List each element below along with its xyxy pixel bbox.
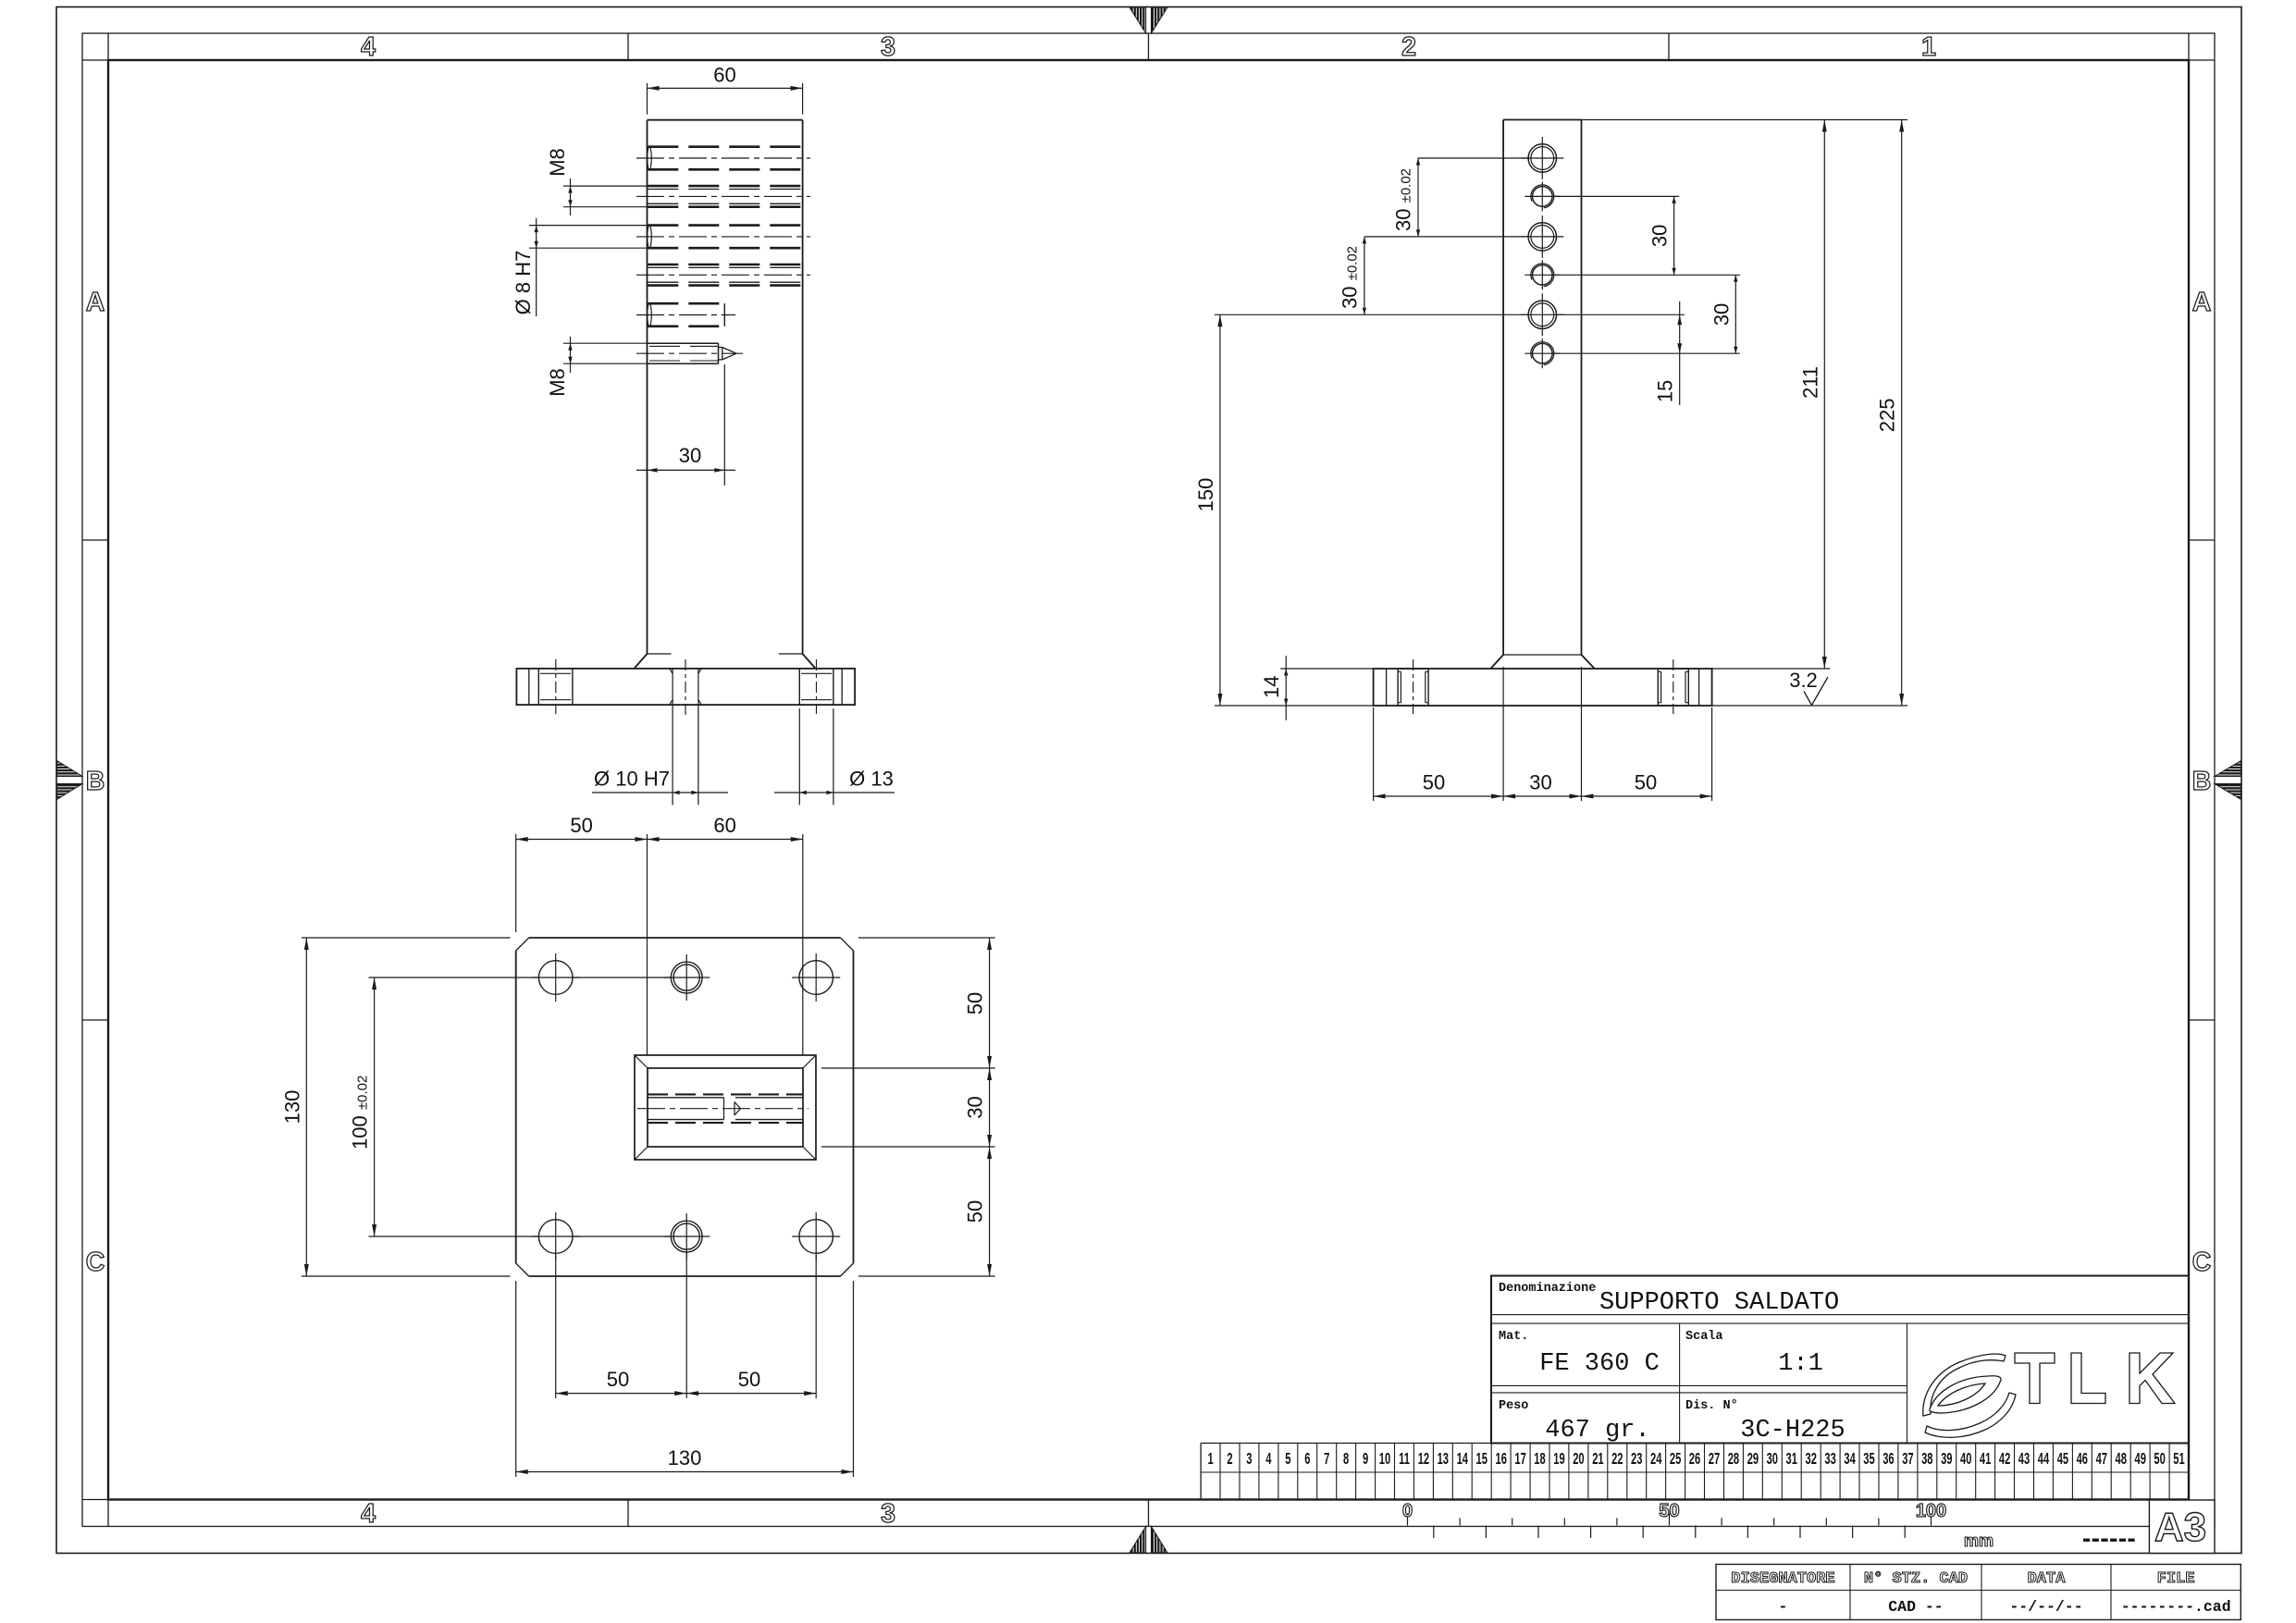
- svg-text:FILE: FILE: [2157, 1570, 2195, 1588]
- svg-text:22: 22: [1611, 1449, 1623, 1468]
- scale bar label 100: [1916, 1501, 1946, 1521]
- svg-text:6: 6: [1304, 1449, 1310, 1468]
- svg-text:4: 4: [361, 32, 376, 62]
- title block row line under Denominazione: [1491, 1315, 2189, 1324]
- centering mark right: [2215, 761, 2241, 800]
- front view: cross hole 1 Ø8 hidden lines: [648, 147, 803, 170]
- svg-text:18: 18: [1534, 1449, 1545, 1468]
- dimension 15 (holes 5-6): [1654, 301, 1682, 405]
- side view: weld flare right: [1582, 655, 1595, 669]
- svg-text:11: 11: [1399, 1449, 1410, 1468]
- plan view: hole Ø13 corner 3: [532, 1212, 580, 1260]
- side view: leader line hole5 left (150 ref): [1215, 314, 1529, 315]
- dimension Ø10H7 (center hole): [592, 708, 833, 805]
- dimension 30 ±0.02 (holes 1-3): [1392, 158, 1421, 237]
- side view: plate hole pocket right centerline: [1673, 659, 1674, 714]
- svg-text:24: 24: [1650, 1449, 1662, 1468]
- svg-text:9: 9: [1363, 1449, 1368, 1468]
- svg-text:3C-H225: 3C-H225: [1740, 1417, 1845, 1445]
- svg-text:50: 50: [1423, 771, 1445, 794]
- scale bar label 0: [1402, 1501, 1413, 1521]
- TLK logo swoosh: [1923, 1354, 2016, 1437]
- svg-text:21: 21: [1592, 1449, 1603, 1468]
- svg-text:15: 15: [1475, 1449, 1487, 1468]
- svg-text:150: 150: [1194, 478, 1217, 512]
- svg-text:Scala: Scala: [1685, 1330, 1723, 1344]
- svg-text:30: 30: [964, 1096, 987, 1118]
- svg-text:-: -: [1779, 1598, 1788, 1616]
- side view: column bottom chamfer line: [1503, 654, 1581, 656]
- svg-text:225: 225: [1876, 399, 1899, 433]
- svg-text:44: 44: [2038, 1449, 2050, 1468]
- dimension 30 (holes 2-4): [1648, 196, 1676, 275]
- svg-text:38: 38: [1921, 1449, 1932, 1468]
- svg-text:3: 3: [881, 1499, 895, 1529]
- front view: setscrew M8 body: [648, 343, 718, 363]
- side view: hole M8 at y4: [1524, 260, 1560, 289]
- plan view: setscrew point in slot: [734, 1102, 741, 1116]
- svg-text:DATA: DATA: [2028, 1570, 2067, 1588]
- title block row line under Mat/Scala: [1491, 1385, 1907, 1393]
- side view: leader line hole4 right: [1551, 274, 1740, 276]
- svg-text:50: 50: [964, 1200, 987, 1223]
- svg-text:13: 13: [1438, 1449, 1449, 1468]
- centering mark left: [57, 761, 83, 800]
- dimension 225 (overall height): [1712, 120, 1907, 707]
- surface finish 3.2 symbol: [1789, 669, 1828, 706]
- plan view: boss corner chamfer diagonals: [635, 1055, 816, 1160]
- svg-text:50: 50: [607, 1368, 629, 1391]
- dimension 211 (column top to plate top): [1582, 120, 1908, 670]
- front view: column bottom chamfer ticks: [648, 653, 803, 655]
- dimension 30 (side bottom middle): [1503, 667, 1581, 801]
- dimension 50 (plan bottom left pair): [556, 1251, 687, 1398]
- front view: setscrew tip cone: [719, 348, 737, 360]
- svg-text:1: 1: [1207, 1449, 1213, 1468]
- svg-text:25: 25: [1670, 1449, 1681, 1468]
- svg-text:15: 15: [1654, 380, 1677, 402]
- svg-text:31: 31: [1785, 1449, 1796, 1468]
- front view: cross hole 1 centerline: [636, 157, 810, 159]
- front view: hole Ø13 right centerline: [816, 659, 818, 714]
- svg-text:DISEGNATORE: DISEGNATORE: [1731, 1570, 1834, 1588]
- plan view: boss column footprint rectangle: [648, 1068, 803, 1147]
- dimension Ø8H7 (reamed cross hole): [512, 218, 647, 316]
- side view: leader line hole5 right (15 ref): [1555, 314, 1685, 315]
- side view: hole Ø8H7 at y5: [1521, 293, 1563, 336]
- svg-text:33: 33: [1824, 1449, 1835, 1468]
- svg-text:46: 46: [2077, 1449, 2088, 1468]
- svg-text:N° STZ. CAD: N° STZ. CAD: [1864, 1570, 1968, 1588]
- svg-text:Ø 13: Ø 13: [849, 768, 894, 791]
- zone band row divider B|C right: [2189, 1019, 2215, 1021]
- svg-text:467 gr.: 467 gr.: [1545, 1417, 1649, 1445]
- svg-text:14: 14: [1260, 676, 1283, 698]
- front view: weld flare right: [803, 654, 816, 669]
- title block label Dis. N°: [1685, 1399, 1738, 1413]
- side view: hole Ø8H7 at y3: [1521, 215, 1563, 258]
- info table value cad: [1888, 1598, 1943, 1616]
- scale bar ruler ticks: [1408, 1514, 1932, 1539]
- front view: column outline: [648, 120, 803, 654]
- plan view: hole Ø13 corner 2: [792, 953, 840, 1002]
- centering mark bottom: [1129, 1527, 1167, 1554]
- side view: plate corner chamfer line left: [1386, 669, 1388, 706]
- zone label B left: [86, 767, 105, 796]
- zone label 3 top: [881, 32, 895, 62]
- side view: base plate outline: [1374, 669, 1712, 706]
- svg-text:27: 27: [1709, 1449, 1720, 1468]
- svg-text:47: 47: [2096, 1449, 2107, 1468]
- svg-text:Denominazione: Denominazione: [1499, 1282, 1596, 1296]
- svg-text:--/--/--: --/--/--: [2009, 1598, 2082, 1616]
- dimension 30 (setscrew depth): [636, 364, 735, 486]
- svg-text:42: 42: [1999, 1449, 2010, 1468]
- svg-text:M8: M8: [546, 148, 569, 177]
- zone band column divider 3|2 top: [1148, 33, 1150, 60]
- front view: cross hole 2 M8 hidden thread lines: [648, 186, 802, 207]
- svg-text:49: 49: [2134, 1449, 2145, 1468]
- front view: cross hole 3 Ø8H7 hidden lines: [648, 226, 803, 249]
- zone band row divider A|B left: [82, 539, 108, 541]
- front view: cross hole 4 centerline: [636, 274, 810, 276]
- side view: hole M8 at y6: [1524, 338, 1560, 368]
- front view: hole Ø10 chamfer ticks: [670, 669, 702, 705]
- title block value 1:1: [1778, 1350, 1823, 1378]
- svg-text:34: 34: [1844, 1449, 1856, 1468]
- svg-text:CAD --: CAD --: [1888, 1598, 1943, 1616]
- svg-text:10: 10: [1379, 1449, 1390, 1468]
- svg-text:M8: M8: [546, 368, 569, 397]
- svg-text:Ø 8 H7: Ø 8 H7: [512, 251, 535, 315]
- svg-text:12: 12: [1418, 1449, 1429, 1468]
- TLK logo letter T: [2015, 1353, 2055, 1404]
- svg-text:60: 60: [713, 814, 735, 837]
- dimension Ø13 (plate holes): [774, 768, 895, 795]
- svg-text:23: 23: [1631, 1449, 1642, 1468]
- svg-text:3: 3: [1246, 1449, 1252, 1468]
- svg-text:50: 50: [1659, 1501, 1679, 1521]
- scale bar label 50: [1659, 1501, 1679, 1521]
- zone label B right: [2192, 767, 2212, 796]
- svg-text:40: 40: [1960, 1449, 1971, 1468]
- front view: setscrew centerline: [636, 352, 743, 354]
- title block value 3C-H225: [1740, 1417, 1845, 1445]
- svg-text:50: 50: [738, 1368, 760, 1391]
- svg-text:B: B: [86, 767, 105, 796]
- svg-text:3.2: 3.2: [1789, 669, 1818, 692]
- svg-text:3: 3: [881, 32, 895, 62]
- info table header DATA: [2028, 1570, 2067, 1588]
- svg-text:30: 30: [679, 444, 701, 467]
- front view: hole Ø13 left centerline: [555, 659, 557, 714]
- dimension 130 (plan bottom): [516, 1281, 854, 1477]
- svg-text:100: 100: [1916, 1501, 1946, 1521]
- front view: weld flare left: [635, 654, 648, 669]
- title block label Denominazione: [1499, 1282, 1596, 1296]
- zone label 3 bottom: [881, 1499, 895, 1529]
- zone label 4 bottom: [361, 1499, 376, 1529]
- zone label C right: [2192, 1248, 2212, 1277]
- front view: cross hole 3 centerline: [636, 236, 810, 238]
- svg-text:Mat.: Mat.: [1499, 1330, 1528, 1344]
- title block label Peso: [1499, 1399, 1528, 1413]
- svg-text:35: 35: [1863, 1449, 1874, 1468]
- side view: leader line hole6 right: [1551, 352, 1740, 354]
- plan view: hole Ø13 corner 4: [792, 1212, 840, 1260]
- dimension 60 (plan top, boss width): [648, 814, 803, 1055]
- revision number strip grid: [1201, 1444, 2189, 1500]
- front view: cross hole 4 M8 hidden thread lines: [648, 264, 802, 286]
- svg-text:20: 20: [1573, 1449, 1584, 1468]
- svg-text:mm: mm: [1964, 1531, 1994, 1550]
- front view: cross hole 5 centerline: [636, 314, 735, 316]
- svg-text:50: 50: [1635, 771, 1657, 794]
- svg-text:14: 14: [1457, 1449, 1469, 1468]
- zone band column divider 3|2 bottom: [1148, 1500, 1150, 1527]
- zone label A left: [86, 288, 105, 317]
- decorative dashes in bottom band: [2083, 1539, 2135, 1542]
- TLK logo letter L: [2071, 1353, 2105, 1404]
- svg-text:Peso: Peso: [1499, 1399, 1528, 1413]
- svg-text:211: 211: [1798, 366, 1821, 399]
- svg-text:FE 360 C: FE 360 C: [1539, 1350, 1660, 1378]
- dimension 130 (plan left, plate height): [280, 938, 510, 1276]
- svg-text:1:1: 1:1: [1778, 1350, 1823, 1378]
- svg-text:5: 5: [1285, 1449, 1290, 1468]
- svg-text:SUPPORTO SALDATO: SUPPORTO SALDATO: [1599, 1289, 1839, 1317]
- title block value SUPPORTO SALDATO: [1599, 1289, 1839, 1317]
- dimension 150 (hole5 to plate bottom): [1194, 314, 1374, 706]
- svg-text:B: B: [2192, 767, 2212, 796]
- plan view: boss outer chamfer rectangle: [635, 1055, 816, 1160]
- svg-text:30: 30: [1648, 225, 1672, 247]
- svg-text:4: 4: [1265, 1449, 1272, 1468]
- zone band column divider 2|1 top: [1668, 33, 1670, 60]
- dimension 50 (plan right lower): [858, 1147, 995, 1276]
- svg-text:2: 2: [1227, 1449, 1232, 1468]
- dimension 14 (plate thickness): [1260, 656, 1373, 720]
- info table value file: [2121, 1598, 2231, 1616]
- svg-text:130: 130: [668, 1446, 702, 1469]
- svg-text:50: 50: [964, 992, 987, 1014]
- svg-text:26: 26: [1689, 1449, 1700, 1468]
- front view: cross hole 5 M8 blind hidden lines: [648, 303, 725, 326]
- title block label Mat.: [1499, 1330, 1528, 1344]
- front view: hole Ø13 right wall lines: [799, 669, 833, 705]
- dimension M8 (top cross hole): [546, 148, 648, 215]
- front view: base plate outline: [516, 669, 855, 705]
- plan view: slot centerline: [637, 1108, 809, 1110]
- svg-text:41: 41: [1980, 1449, 1991, 1468]
- svg-text:C: C: [2192, 1248, 2212, 1277]
- side view: column outline: [1503, 120, 1581, 656]
- dimension 30 (plan right middle): [821, 1068, 995, 1147]
- svg-text:50: 50: [2154, 1449, 2165, 1468]
- zone band column divider 4|3 top: [627, 33, 629, 60]
- dimension 50 (plan bottom right pair): [686, 1255, 816, 1398]
- revision number strip digits: [1207, 1449, 2184, 1468]
- svg-text:16: 16: [1495, 1449, 1506, 1468]
- side view: leader line hole2 right: [1551, 195, 1679, 197]
- TLK logo letter K: [2129, 1353, 2175, 1404]
- svg-text:C: C: [86, 1248, 105, 1277]
- plan view: slot hidden thread lines: [648, 1094, 803, 1123]
- zone band row divider B|C left: [82, 1019, 108, 1021]
- svg-text:60: 60: [713, 64, 735, 87]
- plan view: hole Ø10H7 middle 2: [663, 1213, 710, 1260]
- side view: plate corner chamfer line right: [1698, 669, 1700, 706]
- dimension 50 (plan right upper): [821, 938, 995, 1068]
- side view: plate hole pocket left centerline: [1413, 659, 1414, 714]
- front view: hole Ø10 center walls (extended as extension lines): [673, 669, 698, 805]
- front view: hole Ø13 left wall lines: [538, 669, 573, 705]
- svg-text:30: 30: [1710, 303, 1733, 326]
- zone label A right: [2192, 288, 2212, 317]
- svg-text:A: A: [86, 288, 105, 317]
- dimension 50 (side bottom right): [1582, 707, 1712, 801]
- front view: plate corner chamfer line right: [841, 669, 843, 705]
- drawing info table grid: [1716, 1565, 2240, 1620]
- title block value 467 gr.: [1545, 1417, 1649, 1445]
- side view: leader line hole1 left: [1418, 157, 1530, 159]
- dimension 50 (side bottom left): [1374, 667, 1504, 801]
- front view: plate corner chamfer line left: [528, 669, 530, 705]
- front view: cross hole 2 centerline: [636, 195, 810, 197]
- zone band row divider A|B right: [2189, 539, 2215, 541]
- svg-text:37: 37: [1902, 1449, 1913, 1468]
- svg-text:130: 130: [280, 1090, 303, 1125]
- zone label 4 top: [361, 32, 376, 62]
- side view: plate hole pocket left: [1398, 669, 1428, 706]
- dimension 100 ±0.02 (plan left, hole rows): [349, 977, 672, 1236]
- dimension 30 ±0.02 (holes 3-5): [1338, 237, 1366, 314]
- svg-text:2: 2: [1401, 32, 1416, 62]
- svg-text:30: 30: [1529, 771, 1551, 794]
- title block label Scala: [1685, 1330, 1723, 1344]
- front view: hole Ø10 centerline: [685, 659, 686, 717]
- side view: hole Ø8H7 at y1: [1521, 137, 1563, 179]
- svg-text:45: 45: [2057, 1449, 2068, 1468]
- zone band column divider 4|3 bottom: [627, 1500, 629, 1527]
- dimension 60 (column width, front top): [648, 64, 803, 115]
- plan view: hole Ø10H7 middle 1: [663, 954, 710, 1001]
- side view: plate hole pocket right: [1658, 669, 1688, 706]
- info table header N STZ CAD: [1864, 1570, 1968, 1588]
- centering mark top: [1129, 7, 1167, 33]
- info table value data: [2009, 1598, 2082, 1616]
- svg-text:50: 50: [570, 814, 592, 837]
- format box A3: [2149, 1500, 2215, 1554]
- info table header DISEGNATORE: [1731, 1570, 1834, 1588]
- svg-text:1: 1: [1921, 32, 1936, 62]
- svg-text:39: 39: [1941, 1449, 1952, 1468]
- svg-text:Dis. N°: Dis. N°: [1685, 1399, 1738, 1413]
- svg-text:8: 8: [1343, 1449, 1349, 1468]
- svg-text:36: 36: [1882, 1449, 1894, 1468]
- info table header FILE: [2157, 1570, 2195, 1588]
- zone label 1 top: [1921, 32, 1936, 62]
- svg-text:32: 32: [1805, 1449, 1816, 1468]
- svg-text:28: 28: [1728, 1449, 1739, 1468]
- dimension 30 (holes 4-6): [1710, 275, 1737, 353]
- scale bar unit mm: [1964, 1531, 1994, 1550]
- svg-text:48: 48: [2115, 1449, 2126, 1468]
- svg-text:51: 51: [2173, 1449, 2184, 1468]
- svg-text:0: 0: [1402, 1501, 1413, 1521]
- plan view: plate outline with corner chamfers: [516, 938, 854, 1276]
- title block outer box: [1491, 1276, 2189, 1444]
- svg-text:19: 19: [1553, 1449, 1564, 1468]
- plan view: hole Ø13 corner 1: [532, 953, 580, 1002]
- side view: leader line hole3 left: [1364, 236, 1529, 238]
- plan view: slot through hole solid lines: [648, 1098, 803, 1120]
- svg-text:4: 4: [361, 1499, 376, 1529]
- zone label 2 top: [1401, 32, 1416, 62]
- side view: hole M8 at y2: [1524, 181, 1560, 211]
- svg-text:Ø 10 H7: Ø 10 H7: [594, 768, 670, 791]
- zone label C left: [86, 1248, 105, 1277]
- title block logo cell divider: [1907, 1323, 1908, 1443]
- title block column divider Mat|Scala: [1679, 1323, 1681, 1443]
- svg-text:--------.cad: --------.cad: [2121, 1598, 2231, 1616]
- dimension 50 (plan top, plate edge to boss): [516, 814, 648, 1055]
- svg-text:7: 7: [1324, 1449, 1329, 1468]
- svg-text:A3: A3: [2154, 1505, 2206, 1550]
- info table value disegnatore: [1779, 1598, 1788, 1616]
- svg-text:A: A: [2192, 288, 2212, 317]
- dimension M8 (setscrew hole): [546, 337, 648, 397]
- svg-text:17: 17: [1514, 1449, 1525, 1468]
- side view: weld flare left: [1490, 655, 1503, 669]
- svg-text:43: 43: [2018, 1449, 2030, 1468]
- svg-text:30: 30: [1767, 1449, 1778, 1468]
- title block value FE 360 C: [1539, 1350, 1660, 1378]
- svg-text:29: 29: [1747, 1449, 1759, 1468]
